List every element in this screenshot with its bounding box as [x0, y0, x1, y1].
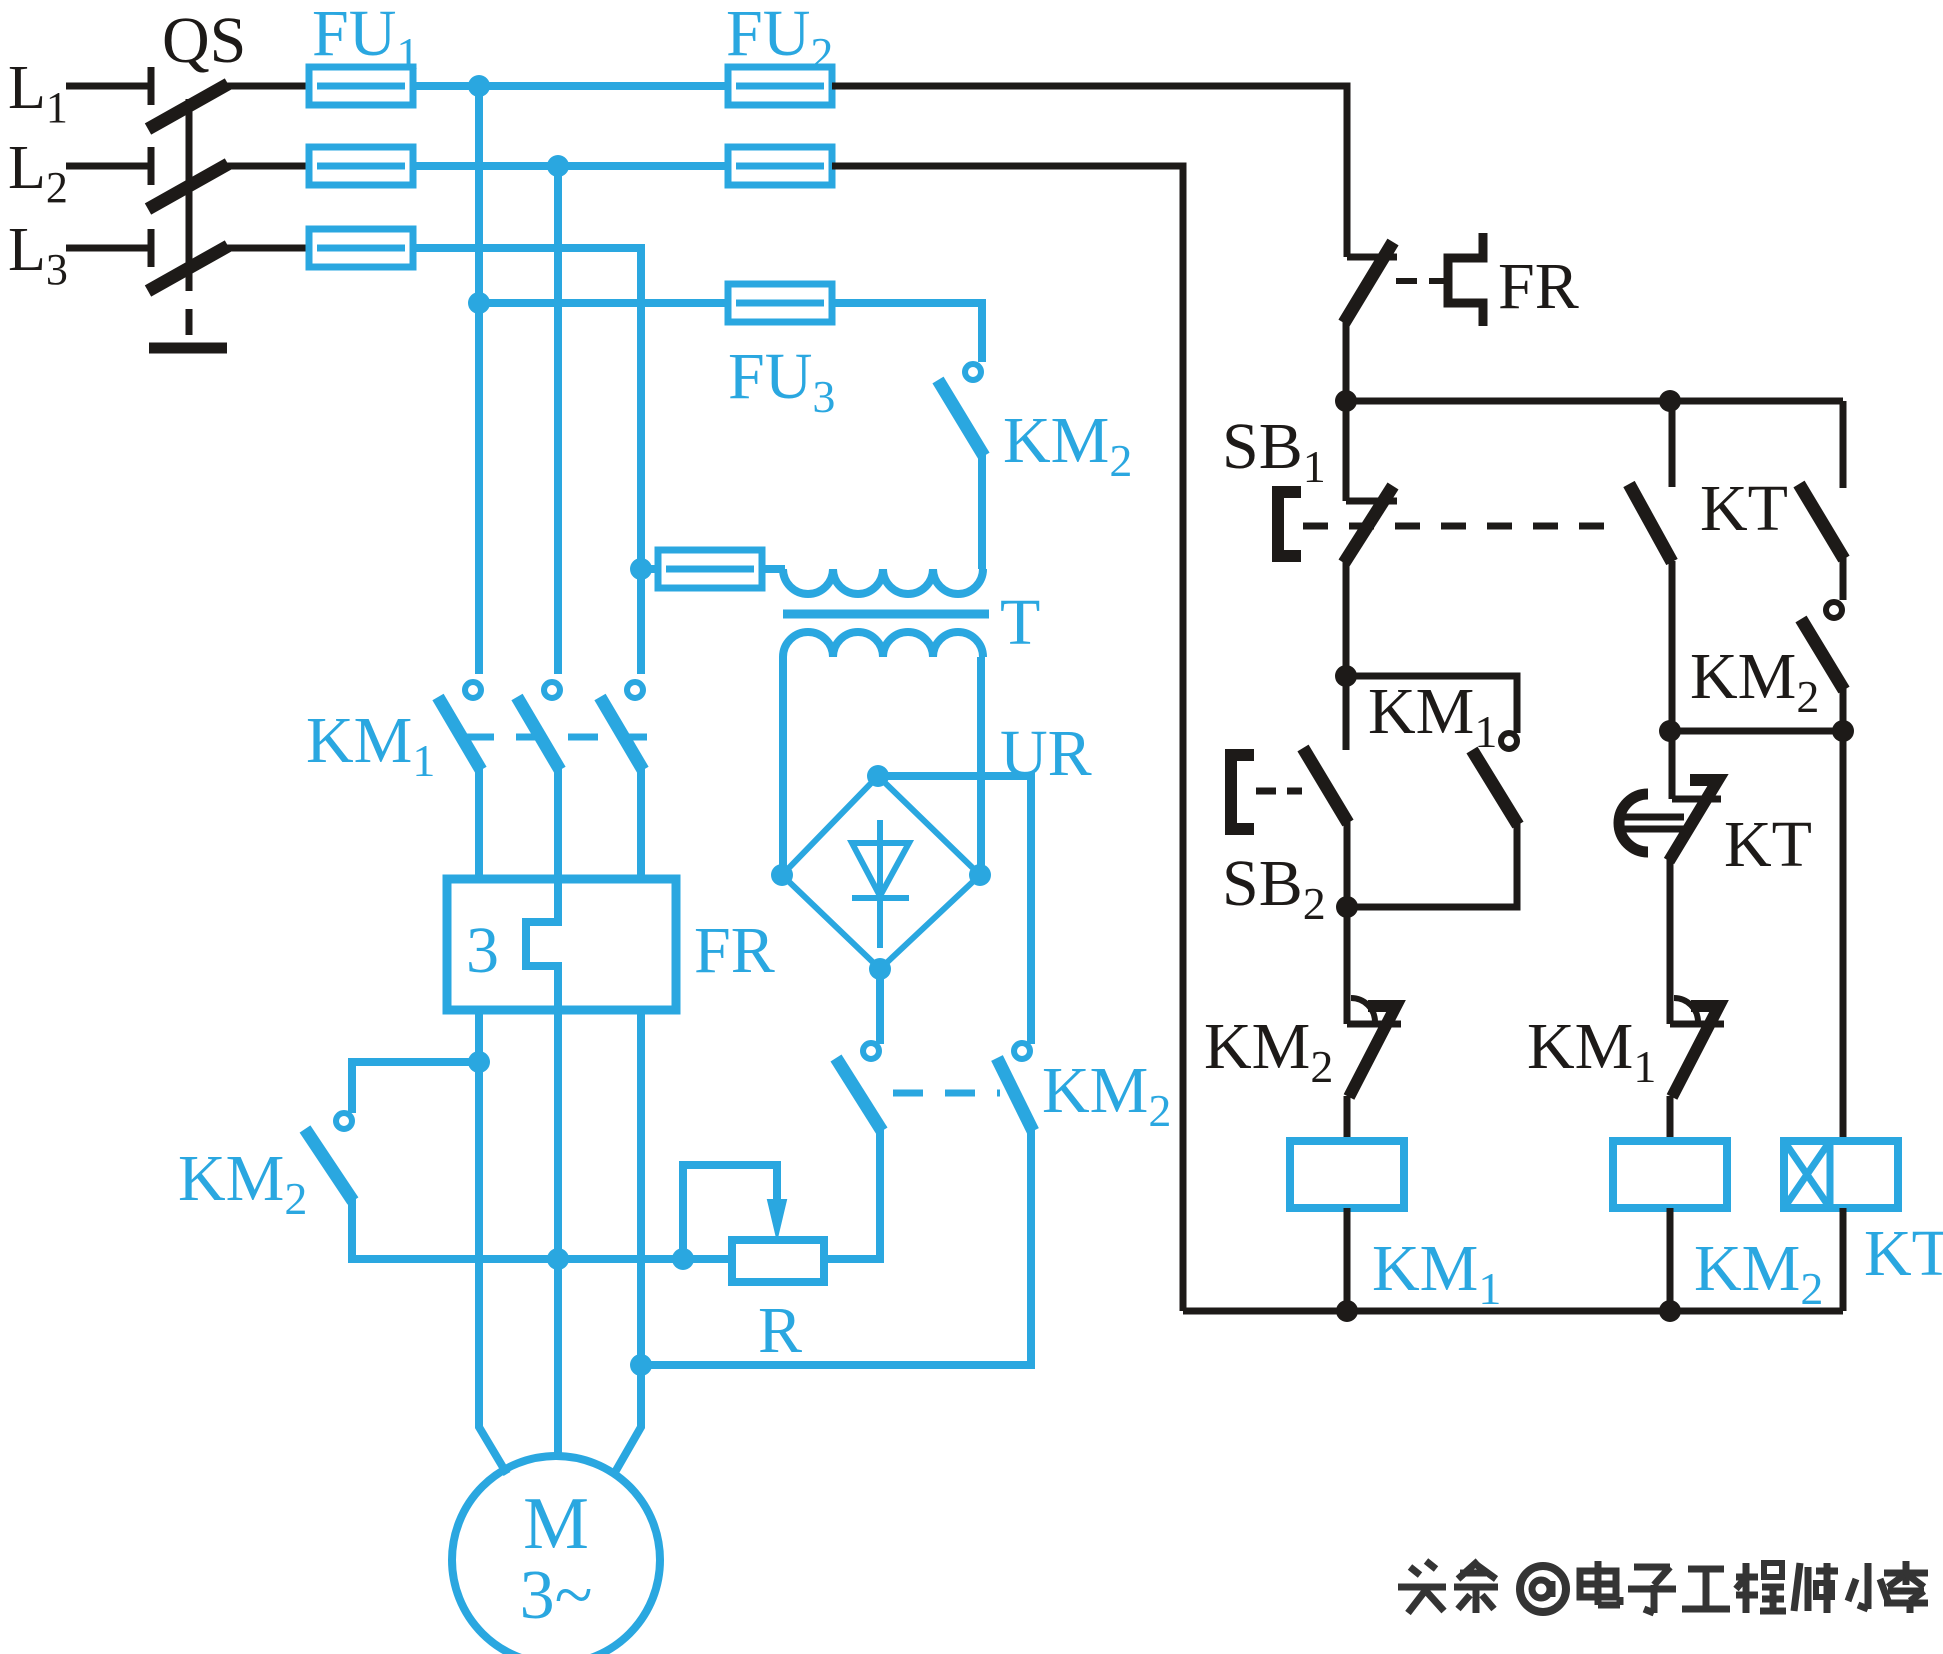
svg-text:QS: QS: [162, 4, 246, 77]
wire phase1 vertical: [475, 86, 483, 674]
wire KM1 interlock to KM2 coil: [1667, 1096, 1674, 1141]
svg-text:3~: 3~: [520, 1557, 593, 1634]
transformer T secondary winding: [783, 632, 983, 657]
thermal relay FR heater element: [526, 879, 558, 1010]
svg-text:L1: L1: [8, 54, 68, 132]
node junction phase3 braking: [630, 1354, 652, 1376]
contact SB1 NC blade: [1344, 486, 1393, 563]
wire secondary left lead: [779, 657, 787, 875]
wire phase2 FR box to motor: [554, 1010, 562, 1456]
node A main branch top: [1335, 390, 1357, 412]
svg-text:KM1: KM1: [1527, 1010, 1656, 1092]
thermal relay FR heater box: [447, 879, 676, 1010]
wire UR minus output: [876, 969, 884, 1044]
contact KT delayed cup arc: [1619, 794, 1648, 852]
wire KM2 coil to bottom rail: [1667, 1208, 1674, 1311]
node self hold top: [1335, 665, 1357, 687]
svg-text:FU3: FU3: [728, 340, 835, 422]
switch QS pole 1 blade: [148, 84, 228, 129]
contact KM1 interlock arc: [1674, 998, 1698, 1022]
node UR left vertex: [771, 864, 793, 886]
wire SB2 to KM2 interlock: [1344, 821, 1351, 1024]
node junction phase3 transformer tap: [630, 558, 652, 580]
wire phase2 KM1 to FR box: [554, 768, 562, 879]
contact FR NC release link dashed: [1396, 278, 1446, 284]
svg-text:KM2: KM2: [1042, 1054, 1171, 1136]
wire phase2 vertical: [554, 166, 562, 674]
contact KM1 main pole2 blade: [517, 697, 560, 770]
wire node C to KT coil: [1840, 731, 1847, 1141]
button SB2 actuator: [1231, 755, 1254, 829]
wire primary fuse to winding: [762, 565, 785, 573]
transformer T core: [783, 610, 989, 619]
contact KM1 interlock blade: [1672, 1006, 1719, 1097]
svg-text:KM2: KM2: [178, 1142, 307, 1224]
wire secondary right lead: [977, 657, 985, 875]
contact KM1 main pole2 fixed terminal: [544, 682, 560, 698]
wire QS pole3 to FU1c: [226, 245, 309, 252]
wire node B to KT delayed contact: [1669, 731, 1676, 799]
resistor R wiper loop: [683, 1165, 777, 1259]
node junction phase2 braking: [547, 1248, 569, 1270]
wire QS pole2 to FU1b: [226, 163, 309, 170]
wire FU1c to phase3 drop: [413, 248, 641, 674]
wire control top rail: [1346, 398, 1843, 405]
motor M circle: [452, 1456, 660, 1654]
switch QS pole 1 fixed contact: [148, 67, 155, 105]
wire QS pole1 to FU1a: [226, 83, 309, 90]
svg-text:L2: L2: [8, 134, 68, 212]
node B mid branch: [1659, 720, 1681, 742]
wire phase1 KM1 to FR box: [475, 768, 483, 879]
rectifier UR diamond: [782, 776, 980, 969]
switch QS pole 2 fixed contact: [148, 147, 155, 185]
contact KT delayed blade: [1669, 780, 1718, 861]
node junction phase1 bypass tap: [468, 1051, 490, 1073]
contact KM1 main pole3 blade: [600, 697, 643, 770]
svg-text:SB1: SB1: [1222, 410, 1326, 492]
contact SB1 linked NO blade: [1629, 484, 1672, 562]
node KM2 coil bottom: [1659, 1300, 1681, 1322]
link KM2 brake contacts dashed: [893, 1090, 1000, 1097]
button SB1 actuator: [1278, 492, 1301, 556]
wire FR contact to node A: [1343, 318, 1350, 401]
contact KM1 self hold blade: [1472, 750, 1518, 825]
wire FU3 branch horizontal: [479, 299, 728, 307]
svg-text:FU1: FU1: [312, 0, 419, 79]
contact KM2 interlock arc: [1351, 998, 1375, 1022]
contact FR NC release symbol: [1448, 233, 1483, 326]
wire mid top to linked contact: [1669, 401, 1676, 487]
contact FR NC blade: [1344, 242, 1393, 323]
contact KM2 brake left blade: [836, 1058, 882, 1131]
wire L3 to QS: [66, 245, 151, 252]
wire phase3 to primary fuse: [641, 565, 658, 573]
coil KM1: [1290, 1141, 1404, 1208]
resistor R body: [732, 1240, 824, 1282]
contact KM2 brake feed blade: [938, 380, 984, 456]
wire phase3 KM1 to FR box: [637, 768, 645, 879]
wire KM1 coil to bottom rail: [1344, 1208, 1351, 1311]
fuse FU1 phase2: [309, 147, 413, 185]
node self hold bottom: [1336, 896, 1358, 918]
contact KM1 self hold fixed terminal: [1501, 733, 1517, 749]
contact KM2 aux NO blade: [1801, 619, 1844, 690]
svg-text:FR: FR: [1498, 250, 1579, 323]
contact KM1 main pole1 fixed terminal: [465, 682, 481, 698]
wire KM2 aux to node C: [1840, 688, 1847, 731]
wire FU2 lower to left rail: [832, 166, 1183, 1311]
svg-text:KM1: KM1: [1368, 675, 1497, 757]
wire KM2 brake right to phase3: [641, 1129, 1031, 1365]
contact KT delayed tick: [1672, 796, 1721, 803]
wire linked contact to node B: [1669, 561, 1676, 731]
wire KM2 brake contact to transformer primary: [978, 452, 986, 569]
svg-text:KM2: KM2: [1003, 404, 1132, 486]
contact KM2 bypass blade: [305, 1129, 353, 1201]
switch QS handle bar: [149, 343, 227, 354]
node UR bottom vertex: [869, 958, 891, 980]
svg-text:KM1: KM1: [1372, 1232, 1501, 1314]
contact FR NC top tick: [1347, 254, 1397, 261]
node junction resistor tap: [672, 1248, 694, 1270]
coil KM2: [1613, 1141, 1727, 1208]
wire KM2 bypass to brake bus: [352, 1199, 732, 1259]
contact KM2 brake left fixed terminal: [863, 1043, 879, 1059]
switch QS pole 2 blade: [148, 164, 228, 209]
svg-text:KM2: KM2: [1694, 1232, 1823, 1314]
fuse FU2 upper: [728, 67, 832, 105]
wire FU2 upper to control corner: [832, 86, 1347, 257]
fuse FU1 phase3: [309, 229, 413, 267]
wire KT contact to KM2 aux: [1840, 556, 1847, 600]
contact SB1 NC tick: [1346, 498, 1397, 505]
svg-text:M: M: [523, 1483, 589, 1565]
contact KT NO blade: [1799, 484, 1844, 559]
wire KT delayed to KM1 interlock: [1667, 858, 1674, 1024]
wire control bottom rail: [1183, 1308, 1843, 1315]
svg-text:KT: KT: [1724, 808, 1812, 881]
contact KM2 bypass fixed terminal: [336, 1113, 352, 1129]
svg-text:SB2: SB2: [1222, 847, 1326, 929]
resistor R wiper arrow: [768, 1200, 786, 1238]
svg-text:KM1: KM1: [306, 704, 435, 786]
node junction phase2 top: [547, 155, 569, 177]
contact KM2 interlock blade: [1349, 1006, 1396, 1097]
contact KM2 brake right fixed terminal: [1014, 1043, 1030, 1059]
wire KM2 interlock to KM1 coil: [1344, 1096, 1351, 1141]
svg-text:KT: KT: [1700, 472, 1788, 545]
svg-text:R: R: [758, 1294, 802, 1367]
contact KM2 aux fixed terminal: [1826, 602, 1842, 618]
contact KM2 brake feed fixed terminal: [965, 364, 981, 380]
wire phase3 FR box to motor: [614, 1010, 641, 1474]
svg-text:KM2: KM2: [1204, 1010, 1333, 1092]
contact KM1 main pole3 fixed terminal: [627, 682, 643, 698]
svg-text:T: T: [1000, 586, 1040, 659]
wire L1 to QS: [66, 83, 151, 90]
wire bypass tap horizontal: [352, 1062, 479, 1113]
svg-text:L3: L3: [8, 216, 68, 294]
switch QS pole 3 fixed contact: [148, 229, 155, 267]
node KM1 coil bottom: [1336, 1300, 1358, 1322]
node C right branch: [1832, 720, 1854, 742]
fuse transformer primary: [658, 550, 762, 588]
coil KT: [1784, 1141, 1898, 1208]
wire node A to SB1: [1343, 401, 1350, 501]
contact SB2 NO blade: [1303, 748, 1348, 823]
svg-text:3: 3: [466, 914, 499, 987]
wire FU1a to FU2a: [413, 82, 728, 90]
wire KT coil to bottom rail: [1840, 1208, 1847, 1311]
node junction phase1 top: [468, 75, 490, 97]
rectifier UR diode symbol: [877, 820, 883, 948]
contact KM2 interlock tick: [1347, 1021, 1401, 1028]
wire self hold loop return: [1346, 823, 1517, 907]
svg-text:KM2: KM2: [1690, 640, 1819, 722]
svg-text:KT: KT: [1864, 1217, 1943, 1290]
contact KM1 interlock tick: [1670, 1021, 1724, 1028]
wire SB1 to SB2: [1343, 561, 1350, 750]
svg-text:FR: FR: [694, 914, 775, 987]
switch QS pole 3 blade: [148, 246, 228, 291]
contact KM2 brake right blade: [997, 1058, 1033, 1131]
wire FU3 to KM2 brake contact: [832, 303, 982, 362]
node UR right vertex: [969, 864, 991, 886]
wire node B to node C: [1670, 728, 1843, 735]
wire FU1b to FU2b: [413, 162, 728, 170]
wire UR plus output: [878, 776, 1031, 1044]
node junction FU3 tap: [468, 292, 490, 314]
fuse FU3: [728, 284, 832, 322]
switch QS linkage rod: [186, 99, 193, 265]
wire KM2 brake left to resistor: [824, 1129, 880, 1259]
fuse FU1 phase1: [309, 67, 413, 105]
transformer T primary winding: [783, 569, 983, 594]
wire top rail corner to KT contact: [1840, 401, 1847, 488]
link KM1 main contacts dashed: [464, 734, 647, 741]
wire phase1 FR box to motor: [479, 1010, 507, 1474]
wire self hold loop top: [1346, 676, 1517, 733]
node UR top vertex: [867, 765, 889, 787]
watermark toutiao: [1398, 1561, 1928, 1613]
fuse FU2 lower: [728, 147, 832, 185]
svg-text:FU2: FU2: [726, 0, 833, 79]
button SB1 link dashed: [1303, 523, 1625, 530]
node mid branch top: [1659, 390, 1681, 412]
contact KM1 main pole1 blade: [438, 697, 481, 770]
button SB2 link dashed: [1256, 788, 1302, 795]
wire L2 to QS: [66, 163, 151, 170]
